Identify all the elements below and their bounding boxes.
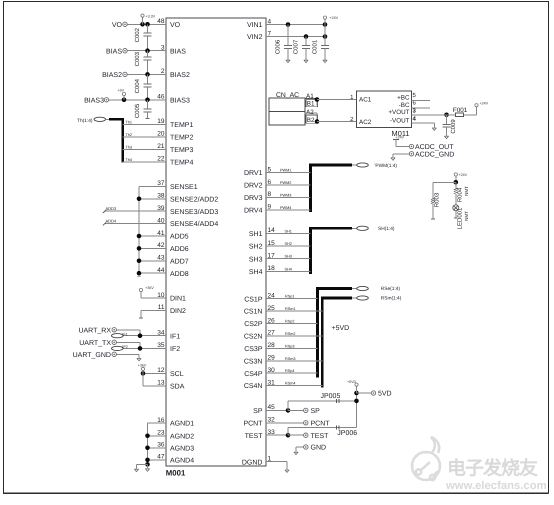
svg-text:ADD6: ADD6 (170, 246, 189, 253)
svg-text:CS1N: CS1N (244, 309, 263, 316)
svg-text:ADD5: ADD5 (170, 234, 189, 241)
svg-text:CS3N: CS3N (244, 358, 263, 365)
svg-text:CS3P: CS3P (244, 346, 263, 353)
svg-text:AGND3: AGND3 (170, 445, 194, 452)
svg-text:SH2: SH2 (249, 244, 263, 251)
svg-text:IF1: IF1 (170, 333, 180, 340)
svg-text:RSm3: RSm3 (285, 357, 296, 361)
svg-text:SENSE1: SENSE1 (170, 184, 198, 191)
svg-text:ADD8: ADD8 (170, 271, 189, 278)
svg-text:TEST: TEST (245, 433, 264, 440)
svg-text:5VD: 5VD (378, 391, 392, 398)
svg-text:SH3: SH3 (285, 255, 292, 259)
svg-text:JP006: JP006 (337, 430, 357, 437)
svg-text:AGND2: AGND2 (170, 433, 194, 440)
svg-text:+24V: +24V (330, 16, 339, 20)
svg-text:C002: C002 (134, 27, 141, 42)
svg-text:VO: VO (112, 22, 123, 29)
svg-text:DRV2: DRV2 (244, 183, 263, 190)
svg-text:SDA: SDA (170, 383, 185, 390)
svg-text:+24V: +24V (396, 135, 405, 139)
svg-text:NMT: NMT (464, 186, 469, 196)
svg-text:DRV4: DRV4 (244, 207, 263, 214)
svg-text:+5V: +5V (118, 89, 125, 93)
svg-text:Th3: Th3 (126, 146, 133, 150)
svg-text:SH4: SH4 (285, 267, 292, 271)
svg-text:BIAS3: BIAS3 (170, 97, 190, 104)
svg-text:+VOUT: +VOUT (388, 109, 409, 116)
svg-text:R004: R004 (457, 187, 464, 202)
svg-text:Th(1:4): Th(1:4) (77, 118, 93, 124)
svg-text:ADD4: ADD4 (106, 219, 117, 224)
svg-text:BIAS2: BIAS2 (170, 72, 190, 79)
svg-text:CS4P: CS4P (244, 371, 263, 378)
svg-text:AGND1: AGND1 (170, 421, 194, 428)
svg-text:DIN1: DIN1 (170, 296, 186, 303)
svg-text:SH(1:4): SH(1:4) (378, 226, 395, 232)
svg-text:SENSE4/ADD4: SENSE4/ADD4 (170, 220, 218, 228)
svg-text:SH1: SH1 (285, 229, 292, 233)
svg-text:SH1: SH1 (249, 231, 263, 238)
svg-text:CS2P: CS2P (244, 321, 263, 328)
svg-text:'PWM(1:4): 'PWM(1:4) (375, 163, 398, 169)
svg-text:www.elecfans.com: www.elecfans.com (445, 480, 547, 492)
svg-text:RSm2: RSm2 (285, 332, 296, 336)
svg-text:JP005: JP005 (321, 393, 341, 400)
svg-text:RSp4: RSp4 (285, 369, 295, 373)
svg-text:+3.3V: +3.3V (146, 15, 156, 19)
svg-text:ADD3: ADD3 (106, 206, 117, 211)
svg-text:R003: R003 (434, 192, 441, 207)
svg-text:SP: SP (311, 408, 321, 415)
svg-text:TEMP4: TEMP4 (170, 160, 193, 167)
svg-text:Th2: Th2 (126, 133, 133, 137)
svg-text:GND: GND (311, 445, 327, 452)
svg-text:SENSE3/ADD3: SENSE3/ADD3 (170, 208, 218, 216)
svg-text:CN_AC: CN_AC (276, 92, 299, 99)
svg-text:+5VD: +5VD (332, 325, 350, 332)
svg-text:PWM2: PWM2 (280, 181, 291, 185)
svg-text:CS2N: CS2N (244, 334, 263, 341)
svg-text:VO: VO (170, 22, 181, 29)
svg-text:VIN1: VIN1 (247, 22, 263, 29)
svg-text:C003: C003 (134, 51, 141, 66)
svg-text:TEMP2: TEMP2 (170, 135, 193, 142)
svg-text:UART_TX: UART_TX (79, 340, 111, 347)
svg-text:DRV1: DRV1 (244, 170, 263, 177)
svg-text:BIAS: BIAS (106, 48, 122, 55)
svg-text:UART_RX: UART_RX (78, 328, 111, 335)
svg-text:SENSE2/ADD2: SENSE2/ADD2 (170, 195, 218, 203)
svg-text:PWM3: PWM3 (280, 193, 291, 197)
svg-text:RSm4: RSm4 (285, 382, 296, 386)
svg-text:C006: C006 (275, 39, 282, 54)
svg-text:+5VD: +5VD (347, 380, 356, 384)
svg-text:RSm(1:4): RSm(1:4) (381, 296, 402, 302)
svg-text:B2: B2 (307, 117, 315, 124)
svg-text:DGND: DGND (242, 459, 263, 466)
svg-text:RSe(1:4): RSe(1:4) (381, 286, 401, 292)
svg-text:TEST: TEST (311, 433, 330, 440)
svg-text:电子发烧友: 电子发烧友 (447, 458, 539, 480)
svg-text:LED001: LED001 (457, 207, 464, 229)
svg-text:Th4: Th4 (126, 158, 133, 162)
svg-text:NMT: NMT (464, 211, 469, 221)
svg-text:TEMP1: TEMP1 (170, 122, 193, 129)
svg-text:CS4N: CS4N (244, 383, 263, 390)
svg-text:SP: SP (253, 408, 263, 415)
svg-text:DRV3: DRV3 (244, 195, 263, 202)
svg-text:RSm1: RSm1 (285, 307, 296, 311)
svg-text:RSp1: RSp1 (285, 295, 295, 299)
svg-text:PCNT: PCNT (243, 420, 263, 427)
svg-text:AC2: AC2 (359, 119, 372, 126)
svg-text:TEMP3: TEMP3 (170, 147, 193, 154)
svg-text:ACDC_GND: ACDC_GND (415, 152, 454, 159)
svg-text:M001: M001 (166, 468, 186, 477)
svg-text:SH3: SH3 (249, 256, 263, 263)
svg-text:SH2: SH2 (285, 242, 292, 246)
svg-text:RSp3: RSp3 (285, 344, 295, 348)
svg-text:DIN2: DIN2 (170, 308, 186, 315)
svg-text:AC1: AC1 (359, 97, 372, 104)
svg-text:ACDC_OUT: ACDC_OUT (415, 144, 454, 151)
svg-text:SH4: SH4 (249, 269, 263, 276)
svg-text:ADD7: ADD7 (170, 258, 189, 265)
svg-text:RSp2: RSp2 (285, 320, 295, 324)
svg-text:UART_GND: UART_GND (73, 352, 111, 359)
svg-text:VIN2: VIN2 (247, 34, 263, 41)
svg-text:PWM4: PWM4 (280, 206, 291, 210)
svg-text:B1: B1 (307, 101, 315, 108)
svg-text:Th1: Th1 (126, 121, 133, 125)
svg-text:AGND4: AGND4 (170, 458, 194, 465)
svg-text:BIAS2: BIAS2 (102, 72, 122, 79)
svg-text:IF2: IF2 (122, 345, 128, 349)
svg-text:PCNT: PCNT (311, 421, 331, 428)
svg-text:SCL: SCL (170, 371, 184, 378)
svg-text:+36V: +36V (145, 286, 154, 290)
svg-text:+BC: +BC (397, 95, 410, 102)
svg-text:PWM1: PWM1 (280, 169, 291, 173)
svg-text:F001: F001 (453, 107, 468, 114)
svg-text:-VOUT: -VOUT (390, 117, 410, 124)
svg-text:+24V: +24V (459, 173, 468, 177)
svg-text:C001: C001 (312, 39, 319, 54)
svg-text:C009: C009 (450, 119, 457, 134)
svg-text:-BC: -BC (399, 102, 410, 109)
svg-text:C007: C007 (293, 39, 300, 54)
svg-text:IF2: IF2 (170, 346, 180, 353)
svg-text:C005: C005 (134, 103, 141, 118)
svg-text:C004: C004 (134, 78, 141, 93)
svg-text:+36V: +36V (138, 363, 147, 367)
svg-text:BIAS3: BIAS3 (84, 98, 104, 105)
svg-text:+24V: +24V (480, 102, 489, 106)
svg-text:BIAS: BIAS (170, 48, 186, 55)
svg-text:CS1P: CS1P (244, 296, 263, 303)
svg-text:IF1: IF1 (122, 332, 128, 336)
